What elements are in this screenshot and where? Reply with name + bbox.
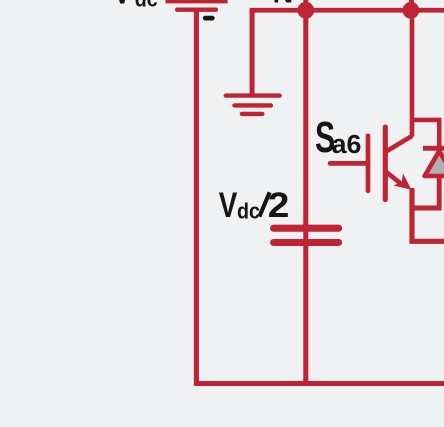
diode triangle (anode) [425, 151, 444, 176]
svg-text:a6: a6 [332, 129, 362, 159]
capacitor Vdc/2 top plate [274, 225, 339, 232]
IGBT S_a6 gate lead [330, 161, 368, 166]
IGBT S_a6 collector diagonal [386, 136, 413, 152]
svg-text:dc: dc [135, 0, 158, 12]
svg-text:2: 2 [268, 185, 290, 225]
node junction dot left [297, 2, 314, 19]
IGBT S_a6 emitter diagonal [386, 172, 403, 186]
wire: battery negative to bottom rail and bottom rail to right edge [196, 11, 444, 384]
label S_a6 [315, 113, 361, 162]
wire: emitter vertical down [409, 188, 414, 241]
battery V_dc long plate [165, 0, 227, 3]
label V_dc/2 [219, 185, 290, 225]
wire: collector vertical from right node [410, 10, 415, 137]
wire: top rail [250, 8, 444, 13]
wire: diode bottom vertical [437, 176, 442, 208]
ground [226, 96, 280, 114]
IGBT S_a6 body bar [383, 127, 388, 199]
battery V_dc short plate [177, 7, 216, 11]
IGBT S_a6 gate bar [366, 136, 371, 191]
svg-text:V: V [219, 185, 238, 225]
svg-text:N: N [273, 0, 294, 10]
minus sign [205, 16, 212, 21]
wire: diode top vertical [437, 120, 442, 147]
wire: diode bottom horizontal to emitter [412, 205, 442, 210]
wire: stub above left node [303, 0, 308, 10]
wire: stub above right node [409, 0, 414, 10]
wire: drop from top rail to ground [250, 10, 255, 95]
capacitor Vdc/2 bottom plate [274, 239, 339, 246]
IGBT S_a6 emitter arrowhead [393, 173, 411, 190]
wire: phase output to right edge [409, 239, 444, 244]
wire: collector node horizontal to diode [412, 118, 442, 123]
svg-text:dc: dc [237, 199, 260, 224]
svg-text:V: V [113, 0, 132, 11]
diode cathode bar [423, 146, 444, 151]
label V_dc (cut off at top edge) [113, 0, 158, 12]
wire: capacitor branch vertical [303, 10, 308, 383]
node junction dot right [403, 2, 420, 19]
